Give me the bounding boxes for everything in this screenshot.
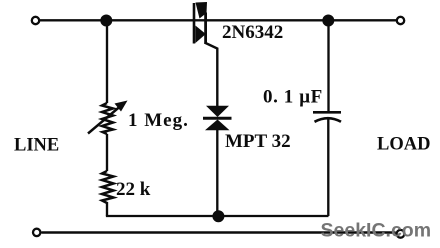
terminal bottom-right <box>397 230 405 238</box>
wire middle branch lower <box>216 130 218 213</box>
wire left branch lower <box>106 202 108 216</box>
triac Q1 2N6342 <box>193 2 207 44</box>
wire bottom bus horizontal <box>106 215 329 217</box>
svg-text:LINE: LINE <box>14 136 59 156</box>
wire top-right horizontal <box>206 19 397 21</box>
wire left branch middle <box>106 134 108 171</box>
potentiometer R1 1 Meg <box>88 101 128 135</box>
svg-text:0. 1 μF: 0. 1 μF <box>263 87 323 108</box>
wire top-left horizontal <box>40 19 194 21</box>
node top-left junction <box>100 15 112 27</box>
svg-text:MPT 32: MPT 32 <box>225 131 291 152</box>
node bottom junction <box>212 210 224 222</box>
svg-text:2N6342: 2N6342 <box>222 22 283 43</box>
svg-text:SeekIC.com: SeekIC.com <box>321 220 432 242</box>
terminal top-right <box>397 17 404 24</box>
wire bottom horizontal <box>42 231 396 233</box>
wire gate lead diagonal <box>205 43 218 107</box>
svg-text:LOAD: LOAD <box>377 135 430 155</box>
svg-text:1 Meg.: 1 Meg. <box>128 110 189 131</box>
diac D1 MPT 32 <box>203 106 232 130</box>
terminal top-left <box>32 17 39 24</box>
resistor R2 22 k <box>102 171 114 203</box>
wire left branch upper <box>106 22 108 103</box>
capacitor C1 0.1 uF <box>313 112 341 216</box>
node top-right junction <box>322 15 334 27</box>
svg-text:22 k: 22 k <box>116 179 151 200</box>
wire right branch upper <box>327 22 329 111</box>
terminal bottom-left <box>33 229 40 236</box>
